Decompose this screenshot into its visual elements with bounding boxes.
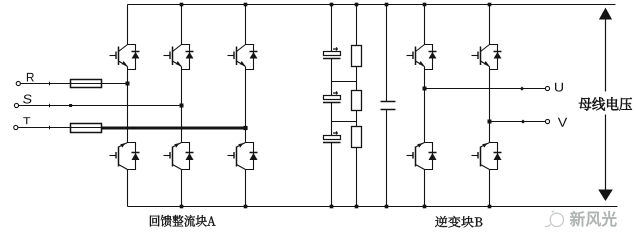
label: 母线电压 (bus voltage) <box>579 97 632 110</box>
junction: R phase into leg 1 <box>126 82 130 86</box>
fuse FU1 (R phase) <box>71 80 102 88</box>
wire: resistor chain lower <box>356 148 358 207</box>
junction: V output on inverter leg 2 <box>488 120 492 124</box>
wire: rectifier leg 1 upper (bus+ to top IGBT) <box>127 5 129 45</box>
wire: top DC+ bus <box>128 4 616 6</box>
wire: rectifier leg 2 upper (bus+ to top IGBT) <box>181 5 183 45</box>
wire through fuse FU2 <box>71 127 102 129</box>
transistor V9 (inverter bottom IGBT with antiparallel diode, U leg) <box>407 143 437 170</box>
terminal S (input circle) <box>14 103 18 107</box>
wire: rectifier leg 2 lower (bottom IGBT to bus-) <box>181 170 183 207</box>
junction: leg 3 on bottom bus <box>244 205 248 209</box>
label V <box>558 118 567 127</box>
watermark text: 新风光 <box>570 211 617 227</box>
label T <box>23 117 30 124</box>
connection mark on V wire <box>521 120 525 124</box>
bus-voltage measurement arrow (double-headed) <box>598 8 613 201</box>
watermark logo icon (gray circle sketch) <box>545 211 564 227</box>
resistor R2 (balancing) <box>352 91 362 111</box>
junction: inverter leg 1 on bottom bus <box>423 205 427 209</box>
capacitor C1 (electrolytic, polarized) <box>323 47 341 58</box>
transistor V5 (rectifier bottom IGBT with antiparallel diode, leg 2 (S phase)) <box>164 143 194 170</box>
wire: rectifier leg 1 midpoint (phase node) <box>127 70 129 143</box>
wire: rectifier leg 3 lower (bottom IGBT to bus-) <box>245 170 247 207</box>
transistor V3 (rectifier top IGBT with antiparallel diode, leg 3 (T phase)) <box>228 45 258 70</box>
junction: leg 2 on top bus <box>180 3 184 7</box>
junction: capacitor column on top bus <box>330 3 334 7</box>
wire: capacitor bank column upper <box>331 5 333 52</box>
wire: between R2 and R3 <box>356 111 358 127</box>
junction: U output on inverter leg 1 <box>423 87 427 91</box>
wire: bottom DC- bus <box>128 206 618 208</box>
wire: inverter leg 1 lower (bottom IGBT to bus-) <box>424 170 426 207</box>
junction: T phase into leg 3 <box>243 126 247 130</box>
transistor V2 (rectifier top IGBT with antiparallel diode, leg 2 (S phase)) <box>164 45 194 70</box>
wire: inverter leg 2 lower (bottom IGBT to bus-) <box>489 170 491 207</box>
wire: between C2 and C3 <box>331 103 333 136</box>
wire: S phase (terminal to leg 2, crosses leg 1) <box>19 105 182 107</box>
wire: V output (leg to terminal) <box>490 121 546 123</box>
wire: inverter leg 1 midpoint (phase U node) <box>424 70 426 143</box>
tick on T wire <box>49 126 51 130</box>
wire: balance link C2/C3 to R2/R3 <box>332 121 357 123</box>
connection mark on S wire <box>69 104 72 107</box>
junction: inverter leg 2 on top bus <box>488 3 492 7</box>
wire: capacitor bank column lower <box>331 143 333 207</box>
wire: balance link C1/C2 to R1/R2 <box>332 81 357 83</box>
wire: R phase (through fuse to leg 1) <box>71 83 128 85</box>
wire: T phase bold (fuse to leg 3, crosses legs 1 and 2) <box>102 127 246 130</box>
label: 回馈整流块A (feedback rectifier block A) <box>150 215 216 227</box>
wire: rectifier leg 3 midpoint (phase node) <box>245 70 247 143</box>
terminal R (input circle) <box>16 81 20 85</box>
wire: filter capacitor lower lead <box>386 110 388 207</box>
transistor V10 (inverter bottom IGBT with antiparallel diode, V leg) <box>472 143 502 170</box>
resistor R3 (balancing) <box>352 127 362 148</box>
wire: resistor chain upper <box>356 5 358 46</box>
junction: resistor chain on bottom bus <box>355 205 359 209</box>
tick on S wire <box>49 104 51 108</box>
wire: filter capacitor upper lead <box>386 5 388 102</box>
terminal U (output circle) <box>545 86 549 90</box>
wire: rectifier leg 2 midpoint (phase node) <box>181 70 183 143</box>
junction: leg 3 on top bus <box>244 3 248 7</box>
junction: filter capacitor on top bus <box>385 3 389 7</box>
junction: inverter leg 2 on bottom bus <box>488 205 492 209</box>
wire: between C1 and C2 <box>331 59 333 96</box>
terminal T (input circle) <box>14 125 18 129</box>
transistor V7 (inverter top IGBT with antiparallel diode, U leg) <box>407 45 437 70</box>
fuse FU2 (T phase) <box>71 124 102 133</box>
junction: filter capacitor on bottom bus <box>385 205 389 209</box>
wire: T phase lead (terminal to fuse) <box>18 127 71 129</box>
wire: U output (leg to terminal, crosses V leg) <box>425 88 546 90</box>
terminal V (output circle) <box>545 119 549 123</box>
label U <box>555 83 563 92</box>
label R <box>27 73 34 82</box>
wire: rectifier leg 3 upper (bus+ to top IGBT) <box>245 5 247 45</box>
wire: R phase lead (terminal to fuse) <box>20 83 70 85</box>
transistor V4 (rectifier bottom IGBT with antiparallel diode, leg 1 (R phase)) <box>110 143 140 170</box>
wire: inverter leg 2 midpoint (phase V node) <box>489 70 491 143</box>
junction: leg 2 on bottom bus <box>180 205 184 209</box>
transistor V1 (rectifier top IGBT with antiparallel diode, leg 1 (R phase)) <box>110 45 140 70</box>
capacitor C3 (electrolytic, polarized) <box>323 131 341 142</box>
wire: inverter leg 2 upper (bus+ to top IGBT) <box>489 5 491 45</box>
label S <box>23 95 32 104</box>
resistor R1 (balancing) <box>352 46 362 67</box>
wire: rectifier leg 1 lower (bottom IGBT to bus-) <box>127 170 129 207</box>
wire: inverter leg 1 upper (bus+ to top IGBT) <box>424 5 426 45</box>
junction: inverter leg 1 on top bus <box>423 3 427 7</box>
tick on R wire <box>49 82 51 86</box>
capacitor C4 (DC-link filter) <box>381 102 396 110</box>
transistor V8 (inverter top IGBT with antiparallel diode, V leg) <box>472 45 502 70</box>
capacitor C2 (electrolytic, polarized) <box>323 91 341 102</box>
junction: capacitor column on bottom bus <box>330 205 334 209</box>
connection mark on U wire <box>520 87 524 91</box>
junction: resistor chain on top bus <box>355 3 359 7</box>
junction: S phase into leg 2 <box>180 104 184 108</box>
wire: between R1 and R2 <box>356 67 358 91</box>
transistor V6 (rectifier bottom IGBT with antiparallel diode, leg 3 (T phase)) <box>228 143 258 170</box>
label: 逆变块B (inverter block B) <box>435 216 482 227</box>
